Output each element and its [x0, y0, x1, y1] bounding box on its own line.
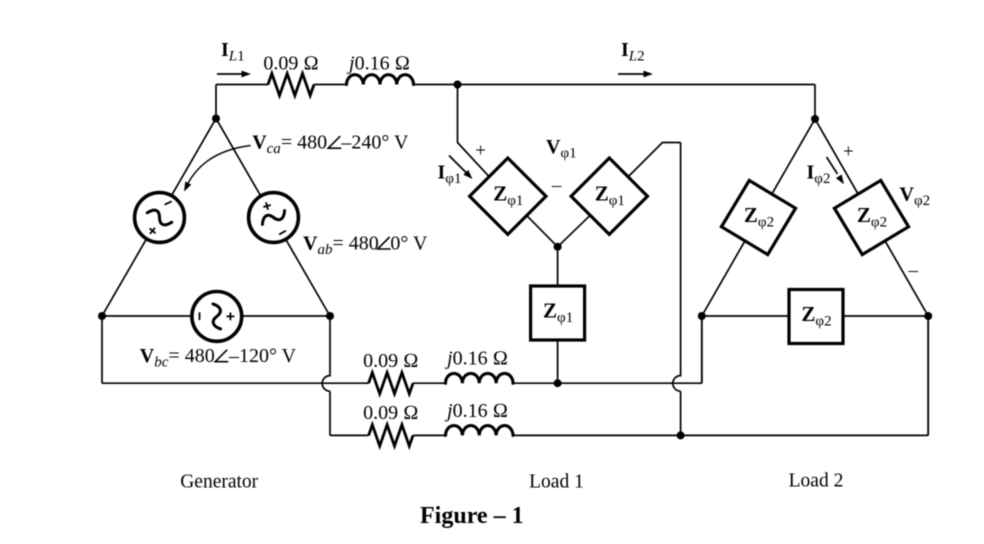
- impedance Zphi2 right box: [834, 180, 908, 254]
- svg-text:j0.16 Ω: j0.16 Ω: [444, 348, 508, 370]
- wire line3 horizontal: [330, 316, 928, 435]
- wire generator delta left side: [102, 119, 216, 317]
- node load2 bottom-left: [698, 312, 706, 320]
- svg-text:Vab= 480: Vab= 480: [303, 232, 379, 258]
- inductor L line3 j0.16 ohm: [446, 426, 514, 436]
- svg-text:0° V: 0° V: [390, 232, 428, 254]
- wire load1 right arm to neutral: [558, 215, 591, 247]
- svg-text:Vbc= 480: Vbc= 480: [140, 345, 215, 371]
- angle symbol Vab: [378, 237, 391, 249]
- wire load2 bottom-right vertical: [927, 316, 929, 435]
- resistor R line1 0.09 ohm: [268, 74, 314, 96]
- arrow IL2: [618, 73, 645, 75]
- wire line2 horizontal: [102, 316, 702, 383]
- svg-text:Vca= 480: Vca= 480: [252, 132, 327, 158]
- svg-text:0.09 Ω: 0.09 Ω: [363, 402, 418, 424]
- wire top line from generator to Load 2 apex: [216, 85, 815, 120]
- angle symbol Vca: [328, 136, 341, 148]
- arrow Iphi2: [827, 157, 838, 174]
- wire load1 phase B feed: [628, 143, 681, 436]
- resistor R line3 0.09 ohm: [369, 425, 413, 446]
- AC source Vbc (bottom side of delta): [192, 292, 242, 342]
- wire generator delta right side: [216, 119, 330, 317]
- svg-text:j0.16 Ω: j0.16 Ω: [346, 53, 410, 75]
- wire load2 delta bottom side: [702, 315, 928, 317]
- svg-text:+: +: [475, 140, 486, 161]
- wire neutral to Zphi1 C: [557, 247, 559, 383]
- impedance Zphi2 left box: [721, 180, 795, 254]
- svg-text:–: –: [908, 260, 919, 281]
- svg-text:0.09 Ω: 0.09 Ω: [263, 53, 318, 75]
- impedance Zphi1 diamond A: [470, 158, 546, 234]
- node load1 on line2: [554, 379, 562, 387]
- node n1 on top line: [454, 81, 462, 89]
- wire load1 feed from node n1: [458, 85, 490, 177]
- node A apex of generator delta: [212, 115, 220, 123]
- node c generator bottom-right: [326, 312, 334, 320]
- AC source Vca (left side of delta): [135, 193, 185, 243]
- angle symbol Vbc: [215, 350, 228, 362]
- svg-text:Figure – 1: Figure – 1: [420, 503, 524, 529]
- impedance Zphi1 square C: [531, 286, 585, 340]
- node load1 phaseB on line3: [677, 431, 685, 439]
- wire generator delta bottom side: [102, 315, 330, 317]
- inductor L line1 j0.16 ohm: [347, 75, 414, 85]
- wire load1 left arm to neutral: [526, 215, 557, 247]
- node neutral load1: [554, 243, 562, 251]
- wire vertical c to line3 with hop over line2: [322, 316, 330, 435]
- svg-text:–120° V: –120° V: [228, 345, 297, 367]
- resistor R line2 0.09 ohm: [369, 373, 413, 394]
- node load2 apex: [811, 115, 819, 123]
- svg-text:j0.16 Ω: j0.16 Ω: [444, 400, 508, 422]
- svg-text:–240° V: –240° V: [340, 132, 409, 154]
- svg-text:Load 2: Load 2: [789, 471, 844, 492]
- wire load2 bottom-left vertical: [701, 316, 703, 383]
- svg-text:–: –: [551, 175, 562, 196]
- arrow IL1: [217, 73, 243, 75]
- node load2 bottom-right: [924, 312, 932, 320]
- node b generator bottom-left: [98, 312, 106, 320]
- inductor L line2 j0.16 ohm: [446, 373, 514, 383]
- arrow Iphi1: [449, 156, 467, 174]
- svg-text:0.09 Ω: 0.09 Ω: [363, 350, 418, 372]
- impedance Zphi1 diamond B: [571, 158, 647, 234]
- wire load2 delta right side: [815, 119, 928, 316]
- svg-text:Load 1: Load 1: [529, 471, 584, 492]
- svg-text:+: +: [843, 142, 854, 163]
- AC source Vab (right side of delta): [249, 193, 299, 243]
- wire left vertical b to line2: [101, 316, 103, 383]
- impedance Zphi2 bottom box: [789, 290, 843, 344]
- arrow leader Vca: [186, 146, 251, 189]
- wire load2 delta left side: [702, 119, 815, 316]
- svg-text:Generator: Generator: [180, 471, 258, 492]
